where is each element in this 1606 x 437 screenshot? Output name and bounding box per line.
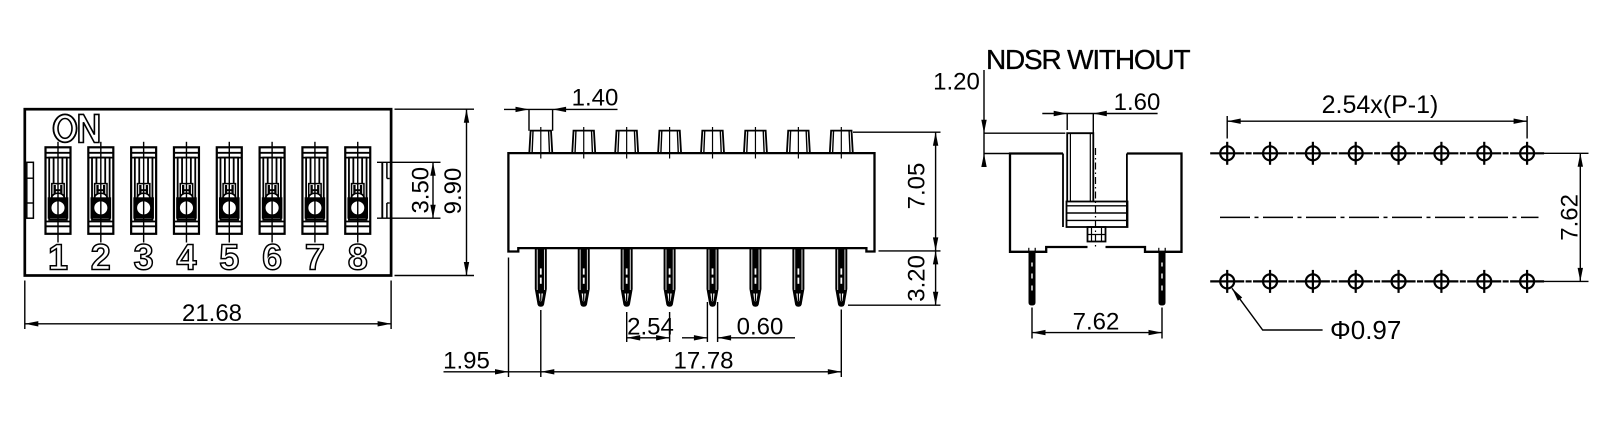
front view: ON marking <box>53 114 99 142</box>
pcb layout: hole top row position 6 <box>1424 142 1458 165</box>
front view: left side tab <box>27 162 34 218</box>
svg-text:3.20: 3.20 <box>904 255 931 302</box>
front view: switch position 8 slider unit <box>345 142 370 243</box>
svg-text:NDSR WITHOUT: NDSR WITHOUT <box>986 44 1190 75</box>
svg-text:1.20: 1.20 <box>933 69 980 96</box>
end view: right pin <box>1159 248 1165 305</box>
pcb layout: hole bottom row position 2 <box>1253 270 1287 293</box>
svg-text:7.62: 7.62 <box>1557 194 1584 241</box>
svg-text:3.50: 3.50 <box>407 167 434 214</box>
dimension 9.90 (body height) <box>395 109 475 275</box>
dimension 1.20 (button height) <box>933 69 1065 168</box>
svg-text:3: 3 <box>134 237 154 278</box>
pcb layout: hole bottom row position 4 <box>1339 270 1373 293</box>
pcb layout: hole top row position 8 <box>1510 142 1544 165</box>
side view: pin 3 <box>621 248 632 306</box>
front view: switch position 1 slider unit <box>46 142 71 243</box>
side view: pin 4 <box>664 248 675 306</box>
svg-text:9.90: 9.90 <box>440 168 467 215</box>
dimension 7.62 (row spacing) <box>1544 153 1589 281</box>
front view: switch position 5 slider unit <box>217 142 242 243</box>
svg-text:2.54x(P-1): 2.54x(P-1) <box>1322 91 1439 119</box>
end view: contact stem <box>1088 227 1106 242</box>
pcb layout: bottom row centerline dashes <box>1246 280 1509 282</box>
pcb layout: top row centerline dashes <box>1246 152 1509 154</box>
dimension 7.62 (pin spacing end view) <box>1032 308 1162 339</box>
pcb layout: hole bottom row position 6 <box>1424 270 1458 293</box>
pcb layout: hole top row position 3 <box>1296 142 1330 165</box>
dimension 17.78 (pin row span) <box>444 310 842 378</box>
side view: pin 8 <box>836 248 847 306</box>
pcb layout: hole bottom row position 8 <box>1510 270 1544 293</box>
pcb layout: hole top row position 1 <box>1210 142 1244 165</box>
end view: push button actuator <box>1067 133 1093 201</box>
front view: right side tab (3.50 ref) <box>382 162 389 218</box>
dimension 21.68 (body width) <box>25 281 391 330</box>
dimension 1.60 (button width) <box>1042 89 1160 158</box>
front view: switch position 2 slider unit <box>88 142 113 243</box>
side view: pin 5 <box>707 248 718 306</box>
svg-text:2.54: 2.54 <box>627 314 674 341</box>
front view: switch position 3 slider unit <box>131 142 156 243</box>
svg-text:7.05: 7.05 <box>904 163 931 210</box>
dimension 1.95 (end offset) <box>443 258 508 378</box>
side view: actuator 2 <box>572 127 595 159</box>
svg-text:5: 5 <box>219 237 239 278</box>
pcb layout: hole top row position 4 <box>1339 142 1373 165</box>
svg-text:21.68: 21.68 <box>182 300 242 327</box>
side view: actuator 8 <box>830 127 853 159</box>
dimension 2.54x(P-1) (hole row span) <box>1227 91 1527 139</box>
side view: actuator 7 <box>787 127 810 159</box>
svg-text:6: 6 <box>262 237 282 278</box>
side view: pin 6 <box>750 248 761 306</box>
svg-text:7.62: 7.62 <box>1073 309 1120 336</box>
hole diameter callout 0.97 with leader <box>1230 287 1402 345</box>
end view: body outline with bottom steps <box>1010 154 1182 252</box>
pcb layout: hole bottom row position 5 <box>1382 270 1416 293</box>
pcb layout: hole top row position 2 <box>1253 142 1287 165</box>
pcb layout: hole bottom row position 3 <box>1296 270 1330 293</box>
end view: slider cavity walls <box>1063 154 1127 228</box>
svg-text:8: 8 <box>348 237 368 278</box>
side view: pin 7 <box>793 248 804 306</box>
dimension 2.54 (pin pitch) <box>627 312 674 342</box>
front view: switch position 6 slider unit <box>260 142 285 243</box>
front view: switch position 4 slider unit <box>174 142 199 243</box>
pcb layout: hole bottom row position 1 <box>1210 270 1244 293</box>
front view: switch position 7 slider unit <box>302 142 327 243</box>
pcb layout: horizontal axis centerline <box>1220 216 1539 218</box>
svg-text:1.95: 1.95 <box>443 348 490 375</box>
side view: actuator 6 <box>744 127 767 159</box>
dimension 0.60 (pin width) <box>682 302 795 342</box>
dimension 7.05 (body height side view) <box>853 132 941 251</box>
svg-text:1: 1 <box>48 237 68 278</box>
pcb layout: hole top row position 5 <box>1382 142 1416 165</box>
svg-text:7: 7 <box>305 237 325 278</box>
side view: actuator 4 <box>658 127 681 159</box>
svg-text:1.40: 1.40 <box>572 84 619 111</box>
svg-text:0.60: 0.60 <box>737 314 784 341</box>
end view: slider block <box>1067 202 1128 228</box>
side view: pin 2 <box>578 248 589 306</box>
dimension 3.20 (pin length) <box>848 251 941 305</box>
end view: left pin <box>1029 248 1035 305</box>
svg-text:1.60: 1.60 <box>1114 89 1161 116</box>
side view: actuator 1 <box>529 127 552 159</box>
side view: actuator 5 <box>701 127 724 159</box>
dimension 3.50 (tab height) <box>377 162 441 218</box>
svg-text:2: 2 <box>91 237 111 278</box>
side view: pin 1 <box>535 248 546 306</box>
svg-text:4: 4 <box>176 237 196 278</box>
front view: switch body outline <box>25 109 391 275</box>
side view: actuator 3 <box>615 127 638 159</box>
end view: mechanism centerline <box>1095 148 1097 249</box>
pcb layout: hole bottom row position 7 <box>1467 270 1501 293</box>
svg-text:Φ0.97: Φ0.97 <box>1330 315 1401 345</box>
pcb layout: hole top row position 7 <box>1467 142 1501 165</box>
svg-text:17.78: 17.78 <box>673 348 733 375</box>
side view: switch body outline with standoff feet <box>508 153 874 251</box>
dimension 1.40 (actuator width) <box>504 84 618 131</box>
